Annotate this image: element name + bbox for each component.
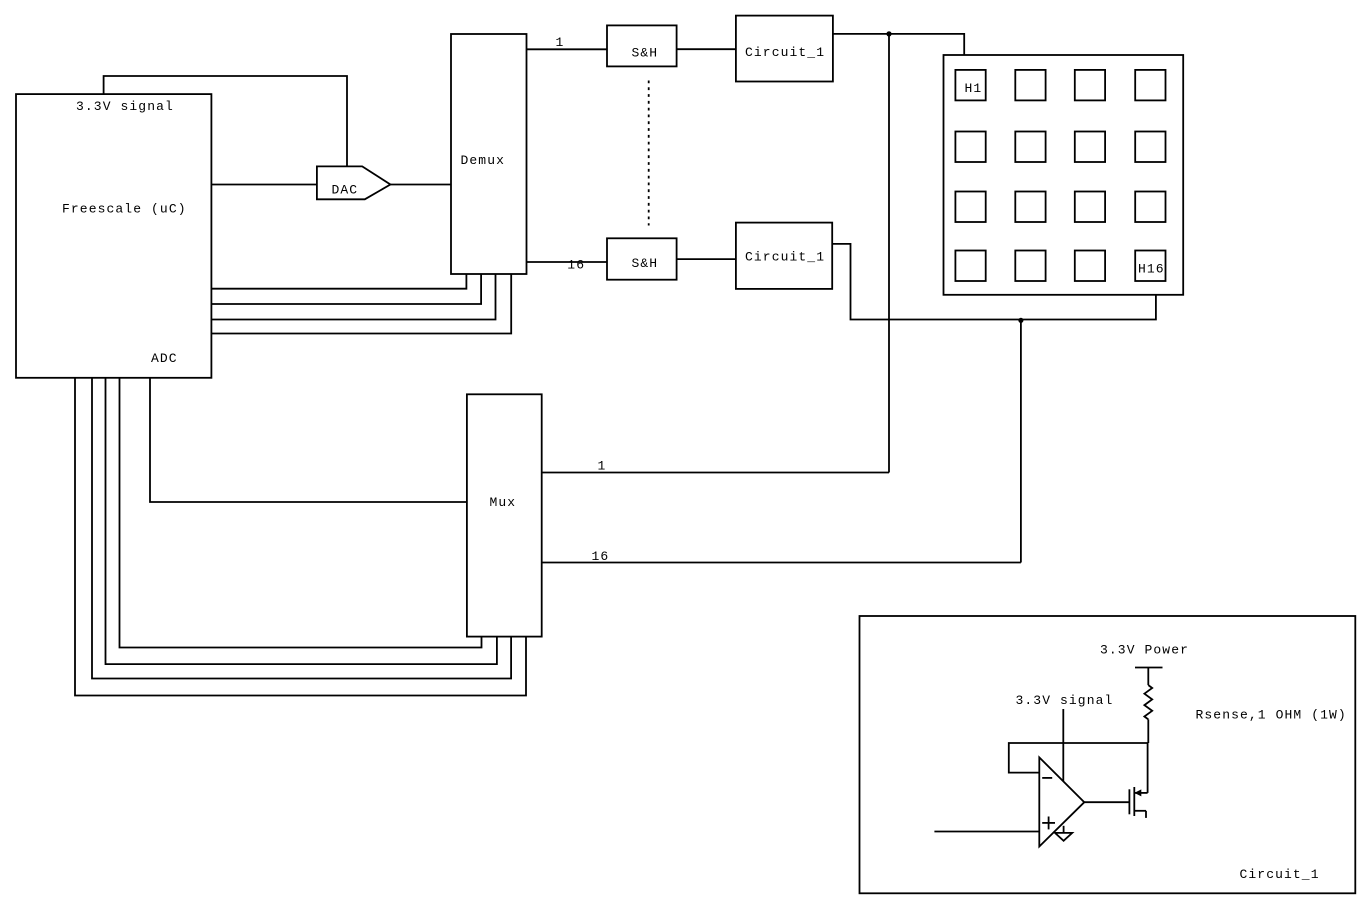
- heater cell H1: [955, 70, 985, 101]
- heater cell H12: [1135, 192, 1165, 223]
- sample-and-hold block S&H (channel 1): [607, 25, 677, 66]
- svg-text:ADC: ADC: [151, 351, 178, 366]
- transistor Q1 MOSFET: [1128, 789, 1130, 814]
- wire: sense line down to Mux output 1: [888, 34, 890, 473]
- heater cell H4: [1135, 70, 1165, 101]
- svg-text:1: 1: [598, 459, 607, 474]
- sample-and-hold block S&H (channel 16): [607, 238, 677, 279]
- svg-text:16: 16: [567, 258, 585, 273]
- wire: resistor to drain node: [1147, 719, 1149, 743]
- node: junction channel 1 sense: [886, 31, 891, 36]
- svg-text:Circuit_1: Circuit_1: [745, 250, 825, 265]
- wire: op-amp output to MOSFET gate: [1084, 801, 1128, 803]
- svg-text:DAC: DAC: [332, 183, 359, 198]
- heater cell H9: [955, 192, 985, 223]
- ground symbol: [1063, 826, 1065, 833]
- op-amp minus label: [1042, 777, 1052, 779]
- wire: non-inverting input: [934, 831, 1039, 833]
- heater cell H13: [955, 251, 985, 282]
- DAC converter symbol: [317, 166, 391, 199]
- op-amp plus label: [1042, 822, 1055, 824]
- svg-text:Freescale (uC): Freescale (uC): [62, 202, 187, 217]
- wire: Freescale to Mux select bus line 3: [92, 378, 511, 679]
- svg-text:Rsense,1 OHM (1W): Rsense,1 OHM (1W): [1196, 708, 1347, 723]
- dotted ellipsis between channels: [648, 81, 650, 226]
- heater array block: [944, 55, 1184, 295]
- heater cell H11: [1075, 192, 1105, 223]
- driver block Circuit_1 (channel 16): [736, 223, 832, 289]
- heater cell H3: [1075, 70, 1105, 101]
- heater cell H10: [1015, 192, 1045, 223]
- wire: Freescale to Mux select bus line 2: [106, 378, 497, 664]
- power rail 3.3V Power symbol: [1135, 667, 1163, 669]
- heater cell H7: [1075, 132, 1105, 163]
- svg-text:1: 1: [556, 35, 565, 50]
- wire: Mux output 1: [542, 472, 889, 474]
- svg-text:H16: H16: [1138, 261, 1165, 276]
- op-amp U2: [1039, 757, 1084, 846]
- wire: Demux output 1 to S&H: [527, 48, 608, 50]
- resistor Rsense: [1144, 685, 1152, 719]
- svg-text:3.3V signal: 3.3V signal: [1016, 693, 1114, 708]
- wire: Demux output 16 to S&H: [527, 261, 608, 263]
- microcontroller block U1 Freescale (uC): [16, 94, 211, 378]
- wire: Freescale top 3.3V signal to DAC top: [104, 76, 347, 166]
- svg-text:Demux: Demux: [461, 153, 506, 168]
- wire: Freescale to Demux select bus line 2: [211, 274, 481, 304]
- svg-text:S&H: S&H: [632, 256, 659, 271]
- wire: Freescale right to DAC input: [211, 184, 317, 186]
- heater cell H2: [1015, 70, 1045, 101]
- wire: Mux output 16: [542, 562, 1021, 564]
- svg-text:Circuit_1: Circuit_1: [745, 45, 825, 60]
- heater cell H14: [1015, 251, 1045, 282]
- heater cell H6: [1015, 132, 1045, 163]
- wire: Freescale to Demux select bus line 4: [211, 274, 511, 334]
- heater cell H8: [1135, 132, 1165, 163]
- driver block Circuit_1 (channel 1): [736, 16, 833, 82]
- svg-text:Mux: Mux: [490, 495, 517, 510]
- wire: Freescale to Demux select bus line 1: [211, 274, 466, 289]
- svg-text:3.3V signal: 3.3V signal: [76, 99, 174, 114]
- multiplexer block Mux: [467, 394, 542, 636]
- heater cell H5: [955, 132, 985, 163]
- wire: Freescale to Demux select bus line 3: [211, 274, 495, 320]
- wire: S&H to Circuit_1 (channel 16): [677, 258, 736, 260]
- svg-text:3.3V Power: 3.3V Power: [1100, 643, 1189, 658]
- wire: Circuit_1 ch16 output to heater grid bottom: [832, 244, 1156, 320]
- svg-text:S&H: S&H: [632, 46, 659, 61]
- wire: Freescale to Mux select bus line 4: [75, 378, 526, 696]
- wire: Freescale to Mux select bus line 1: [120, 378, 482, 648]
- wire: DAC output to Demux: [390, 184, 451, 186]
- node: junction channel 16 sense: [1018, 318, 1023, 323]
- svg-text:Circuit_1: Circuit_1: [1240, 867, 1320, 882]
- heater cell H16: [1135, 251, 1165, 282]
- wire: 3.3V signal drop to op-amp: [1062, 709, 1064, 781]
- wire: S&H to Circuit_1 (channel 1): [677, 48, 736, 50]
- svg-text:16: 16: [592, 549, 610, 564]
- Circuit_1 detail enclosure: [860, 616, 1356, 893]
- heater cell H15: [1075, 251, 1105, 282]
- svg-text:H1: H1: [965, 81, 983, 96]
- demultiplexer block Demux: [451, 34, 527, 274]
- wire: sense line down to Mux output 16: [1020, 320, 1022, 563]
- wire: feedback from sense node to inverting input: [1009, 743, 1149, 773]
- wire: Circuit_1 output to heater grid top: [833, 34, 964, 55]
- wire: ADC input from Mux: [150, 378, 467, 502]
